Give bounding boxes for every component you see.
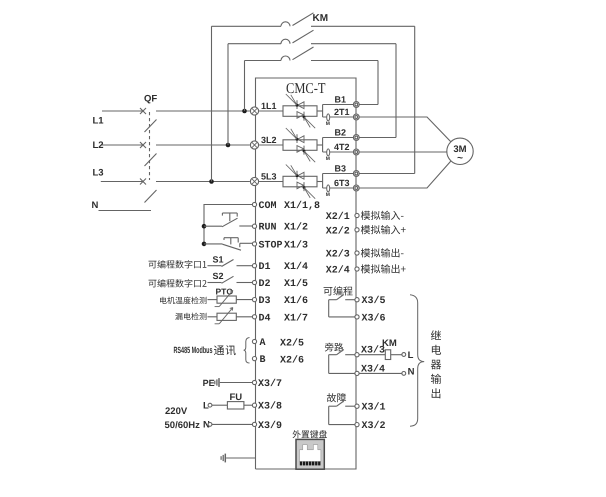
terminal X3/1 bbox=[355, 404, 359, 408]
brace relay outputs bbox=[410, 295, 424, 426]
svg-text:D1: D1 bbox=[259, 262, 271, 273]
svg-text:X1/7: X1/7 bbox=[284, 312, 308, 324]
svg-text:L3: L3 bbox=[93, 168, 104, 179]
terminal X2/1 bbox=[355, 213, 359, 217]
svg-text:M: M bbox=[326, 156, 330, 162]
svg-text:M: M bbox=[326, 192, 330, 198]
wire X3/4 to N bbox=[359, 372, 402, 374]
svg-text:QF: QF bbox=[144, 94, 157, 105]
svg-text:X1/1,8: X1/1,8 bbox=[284, 200, 320, 212]
contactor KM contact 1 bbox=[212, 13, 314, 26]
terminal X3/5 bbox=[355, 298, 359, 302]
svg-text:X2/6: X2/6 bbox=[280, 355, 304, 367]
svg-text:L2: L2 bbox=[93, 140, 104, 151]
terminal X3/6 bbox=[355, 315, 359, 319]
terminal D1 bbox=[252, 264, 256, 268]
breaker QF pole 3 blade bbox=[145, 190, 157, 203]
svg-text:X3/1: X3/1 bbox=[362, 402, 386, 414]
terminal COM bbox=[252, 202, 256, 206]
node L1 junction (to KM) bbox=[242, 109, 247, 114]
wire B1 to KM contact riser bbox=[359, 104, 378, 106]
svg-text:RS485 Modbus: RS485 Modbus bbox=[174, 345, 213, 355]
svg-text:N: N bbox=[408, 366, 415, 377]
contactor KM contact 2 bbox=[228, 30, 314, 44]
svg-text:COM: COM bbox=[259, 201, 277, 212]
label 可编程 (programmable relay) bbox=[324, 286, 353, 295]
svg-text:D4: D4 bbox=[259, 313, 271, 324]
terminal X3/9 bbox=[252, 422, 256, 426]
label 模拟输入- bbox=[361, 211, 404, 220]
label 模拟输出+ bbox=[361, 264, 406, 273]
ground chassis symbol (bottom) bbox=[221, 454, 225, 463]
svg-text:X1/4: X1/4 bbox=[284, 261, 308, 273]
wire 6T3 to motor bbox=[359, 161, 451, 188]
svg-text:M: M bbox=[326, 121, 330, 127]
label D3 X1/6 bbox=[259, 295, 309, 307]
breaker QF pole 3 contact cross bbox=[140, 179, 146, 185]
svg-text:4T2: 4T2 bbox=[334, 142, 350, 152]
label A X2/5 bbox=[260, 338, 305, 350]
relay contact 旁路 X3/3-X3/4 bbox=[329, 350, 355, 374]
node control bus / STOP bbox=[202, 242, 207, 247]
switch S1 bbox=[208, 260, 253, 267]
node control bus / RUN bbox=[202, 224, 207, 229]
svg-text:L: L bbox=[408, 350, 414, 361]
wire to terminal 6T3 with current sensor bbox=[323, 185, 354, 198]
svg-text:X3/7: X3/7 bbox=[258, 378, 282, 390]
wire ground stub bbox=[226, 457, 255, 459]
wire L3 from QF to CMC-T input bbox=[156, 181, 250, 183]
svg-text:X2/2: X2/2 bbox=[326, 225, 350, 237]
svg-text:KM: KM bbox=[313, 13, 329, 24]
svg-text:CMC-T: CMC-T bbox=[286, 81, 326, 97]
contactor KM contact 3 bbox=[245, 47, 314, 61]
wire KM contact 2 left riser bbox=[227, 44, 229, 145]
svg-text:RUN: RUN bbox=[259, 223, 277, 234]
svg-text:D2: D2 bbox=[259, 279, 271, 290]
thyristor pair SCR phase 2 bbox=[283, 128, 317, 162]
label COM X1/1,8 bbox=[259, 200, 321, 212]
svg-text:B2: B2 bbox=[335, 127, 347, 137]
svg-text:X1/2: X1/2 bbox=[284, 222, 308, 234]
wire B3 to KM contact riser bbox=[359, 173, 415, 175]
svg-text:~: ~ bbox=[457, 153, 463, 164]
wire KM contact 3 left riser bbox=[244, 61, 246, 112]
terminal STOP bbox=[252, 242, 256, 246]
wire 1L1 to thyristor bbox=[259, 110, 283, 112]
wire thyristor output node phase 3 bbox=[317, 174, 323, 189]
svg-text:X2/3: X2/3 bbox=[326, 249, 350, 261]
terminal X2/2 bbox=[355, 228, 359, 232]
svg-text:50/60Hz: 50/60Hz bbox=[165, 420, 201, 431]
wire KM contact 3 right riser to B1 bbox=[377, 61, 379, 105]
terminal X3/4 bbox=[355, 371, 359, 375]
svg-text:STOP: STOP bbox=[259, 240, 283, 251]
terminal B bbox=[252, 357, 256, 361]
relay contact 可编程 X3/5-X3/6 bbox=[329, 295, 355, 317]
svg-text:S2: S2 bbox=[213, 271, 224, 281]
svg-text:X3/5: X3/5 bbox=[362, 295, 386, 307]
wire KM contact 2 right riser to B2 bbox=[395, 44, 397, 138]
label STOP X1/3 bbox=[259, 239, 309, 251]
node L output circle bbox=[402, 353, 406, 357]
label 漏电检测 bbox=[175, 313, 206, 320]
wire L2 supply line (left of QF) bbox=[101, 144, 143, 146]
terminal X3/2 bbox=[355, 423, 359, 427]
connector RJ45 external keypad bbox=[296, 439, 324, 469]
svg-text:220V: 220V bbox=[165, 406, 188, 417]
fuse FU bbox=[212, 402, 253, 409]
wire KM contact 2 right line bbox=[311, 43, 396, 45]
wire 2T1 to motor bbox=[359, 117, 451, 142]
label 可编程数字口2 bbox=[149, 279, 207, 287]
svg-text:3L2: 3L2 bbox=[261, 135, 277, 145]
terminal 2T1 bbox=[353, 114, 359, 120]
svg-text:X2/5: X2/5 bbox=[280, 338, 304, 350]
svg-text:A: A bbox=[260, 338, 266, 349]
wire L1 from QF to CMC-T input bbox=[156, 110, 250, 112]
breaker QF pole 1 contact cross bbox=[140, 108, 146, 114]
wire N to X3/9 bbox=[212, 423, 253, 425]
wire PE to X3/7 bbox=[220, 382, 253, 384]
terminal RUN bbox=[252, 224, 256, 228]
node L input circle bbox=[208, 403, 212, 407]
terminal 6T3 bbox=[353, 185, 359, 191]
label 旁路 (bypass relay) bbox=[325, 343, 343, 352]
svg-text:X3/6: X3/6 bbox=[362, 312, 386, 324]
wire thyristor output node phase 1 bbox=[317, 105, 323, 118]
terminal X3/3 bbox=[355, 353, 359, 357]
wire B2 to KM contact riser bbox=[359, 137, 396, 139]
svg-text:X2/1: X2/1 bbox=[326, 211, 350, 223]
sensor leakage detector bbox=[208, 308, 253, 324]
thyristor pair SCR phase 1 bbox=[283, 94, 317, 128]
terminal X3/7 bbox=[252, 380, 256, 384]
relay contact 故障 X3/1-X3/2 bbox=[329, 401, 355, 425]
wire L3 supply line (left of QF) bbox=[101, 181, 143, 183]
wire thyristor output node phase 2 bbox=[317, 138, 323, 153]
wire KM contact 1 right line bbox=[311, 25, 415, 27]
node N input circle bbox=[208, 423, 212, 427]
wire KM contact 1 left riser bbox=[211, 26, 213, 181]
svg-text:X1/6: X1/6 bbox=[284, 295, 308, 307]
terminal X2/3 bbox=[355, 251, 359, 255]
label 继电器输出 (vertical) bbox=[431, 330, 441, 398]
label RS485 Modbus通讯 bbox=[174, 345, 236, 355]
wire to terminal 4T2 with current sensor bbox=[323, 149, 354, 162]
terminal B2 bbox=[353, 135, 359, 141]
node L2 junction (to KM) bbox=[226, 143, 231, 148]
terminal 4T2 bbox=[353, 149, 359, 155]
label RUN X1/2 bbox=[259, 222, 309, 234]
CMC-T soft starter enclosure box bbox=[256, 78, 357, 469]
svg-text:1L1: 1L1 bbox=[261, 101, 277, 111]
svg-text:X3/8: X3/8 bbox=[258, 401, 282, 413]
terminal X3/8 bbox=[252, 403, 256, 407]
svg-text:5L3: 5L3 bbox=[261, 172, 277, 182]
breaker QF pole 1 blade bbox=[145, 120, 157, 133]
label 模拟输入+ bbox=[361, 225, 406, 234]
wire KM contact 1 right riser to B3 bbox=[414, 26, 416, 173]
svg-text:N: N bbox=[92, 200, 99, 211]
node L3 junction (to KM) bbox=[209, 179, 214, 184]
label 外置键盘 bbox=[293, 430, 327, 438]
terminal 3L2 (input) bbox=[250, 141, 258, 149]
label 220V 50/60Hz bbox=[165, 406, 201, 431]
label D2 X1/5 bbox=[259, 278, 309, 290]
breaker QF mechanical linkage (dashed) bbox=[149, 112, 151, 180]
svg-text:6T3: 6T3 bbox=[334, 178, 350, 188]
svg-text:B3: B3 bbox=[335, 163, 347, 173]
label 故障 (fault relay) bbox=[327, 393, 346, 402]
terminal D2 bbox=[252, 280, 256, 284]
wire to terminal B3 bbox=[323, 173, 354, 175]
svg-text:X1/3: X1/3 bbox=[284, 239, 308, 251]
svg-text:PE: PE bbox=[203, 378, 215, 388]
svg-text:X3/2: X3/2 bbox=[362, 420, 386, 432]
pushbutton STOP (NC) bbox=[204, 238, 252, 251]
label 电机温度检测 bbox=[160, 297, 206, 304]
wire L2 from QF to CMC-T input bbox=[156, 144, 250, 146]
label 可编程数字口1 bbox=[149, 260, 207, 268]
wire N line bbox=[99, 210, 152, 212]
terminal D4 bbox=[252, 315, 256, 319]
svg-text:X3/9: X3/9 bbox=[258, 420, 282, 432]
coil KM bbox=[359, 350, 402, 360]
svg-text:B1: B1 bbox=[335, 94, 347, 104]
svg-text:S1: S1 bbox=[213, 254, 224, 264]
brace for A/B pair bbox=[244, 338, 250, 364]
thermistor PTC bbox=[208, 290, 253, 306]
switch S2 bbox=[208, 276, 253, 283]
wire COM to control bus bbox=[204, 205, 252, 244]
thyristor pair SCR phase 3 bbox=[283, 165, 317, 199]
svg-text:D3: D3 bbox=[259, 296, 271, 307]
wire 4T2 to motor bbox=[359, 151, 447, 153]
terminal A bbox=[252, 339, 256, 343]
terminal B3 bbox=[353, 171, 359, 177]
terminal 1L1 (input) bbox=[250, 107, 258, 115]
label B X2/6 bbox=[260, 355, 305, 367]
motor 3M bbox=[447, 138, 473, 164]
label D4 X1/7 bbox=[259, 312, 309, 324]
wire to terminal B1 bbox=[323, 104, 354, 106]
wire 3L2 to thyristor bbox=[259, 144, 283, 146]
svg-text:2T1: 2T1 bbox=[334, 107, 350, 117]
svg-text:B: B bbox=[260, 355, 266, 366]
wire 5L3 to thyristor bbox=[259, 181, 283, 183]
breaker QF pole 2 contact cross bbox=[140, 142, 146, 148]
svg-text:KM: KM bbox=[382, 338, 397, 349]
label D1 X1/4 bbox=[259, 261, 309, 273]
terminal X2/4 bbox=[355, 267, 359, 271]
wire KM contact 3 right line bbox=[311, 60, 378, 62]
wire to terminal 2T1 with current sensor bbox=[323, 114, 354, 127]
terminal D3 bbox=[252, 298, 256, 302]
ground PE symbol bbox=[215, 378, 219, 387]
terminal B1 bbox=[353, 102, 359, 108]
svg-text:X2/4: X2/4 bbox=[326, 265, 350, 277]
svg-text:L1: L1 bbox=[93, 116, 105, 127]
terminal 5L3 (input) bbox=[250, 177, 258, 185]
pushbutton RUN (NO) bbox=[204, 213, 252, 227]
node N output circle bbox=[402, 372, 406, 376]
breaker QF pole 2 blade bbox=[145, 154, 157, 167]
wire L1 supply line (left of QF) bbox=[102, 110, 143, 112]
label 模拟输出- bbox=[361, 248, 404, 257]
svg-text:X1/5: X1/5 bbox=[284, 278, 308, 290]
wire to terminal B2 bbox=[323, 137, 354, 139]
